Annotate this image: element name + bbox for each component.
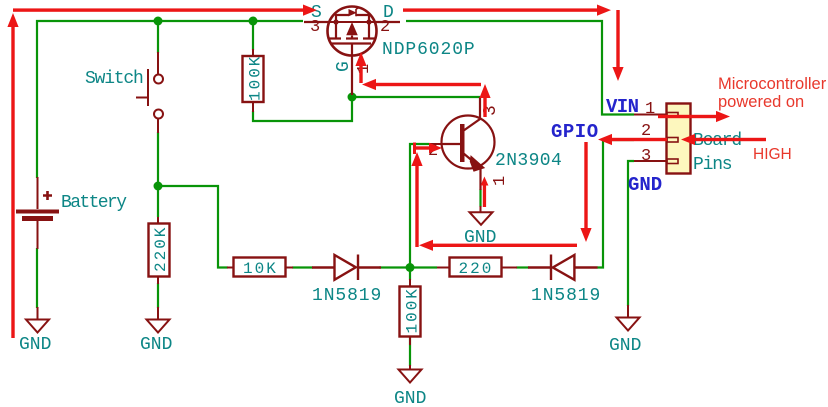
svg-text:GND: GND [609, 336, 641, 356]
wire transistor emitter to ground [479, 189, 481, 207]
resistor 10K [227, 258, 293, 279]
wire top rail from battery + to MOSFET source [37, 21, 303, 178]
svg-text:3: 3 [310, 18, 320, 37]
connector pin 1 lead [634, 114, 667, 116]
resistor 100K pull-up [243, 49, 265, 112]
current arrow top rail right [13, 5, 317, 16]
current arrow down into VIN [612, 10, 623, 81]
resistor 220 [437, 258, 517, 279]
current arrow up at collector [479, 84, 490, 117]
ground right below pin 3 [617, 305, 640, 331]
connector pin 3 lead [634, 160, 667, 162]
svg-text:GND: GND [628, 174, 662, 196]
wire node to 10K resistor [158, 186, 228, 268]
svg-text:1: 1 [491, 176, 510, 186]
wire diode D2 up to GPIO pin 2 [597, 140, 634, 268]
wire MOSFET drain to VIN pin [406, 21, 634, 115]
current arrow pin1 into microcontroller [658, 111, 730, 122]
current arrow right-to-left into gate [362, 79, 481, 90]
svg-text:GND: GND [140, 335, 172, 355]
current arrow up at gate [355, 52, 366, 83]
wire 220K top lead drop [157, 186, 159, 217]
wire base node up to transistor base [410, 144, 429, 268]
svg-text:NDP6020P: NDP6020P [382, 40, 476, 60]
wire 220 to diode D2 [516, 266, 529, 268]
svg-text:100K: 100K [404, 287, 422, 333]
junction gate node [348, 93, 357, 102]
ground below battery [26, 307, 49, 333]
junction node top-rail / switch [154, 17, 163, 26]
svg-text:1: 1 [645, 100, 655, 119]
current arrow HIGH into pin2 [681, 134, 766, 145]
wire 100K lower resistor to ground [409, 337, 411, 366]
svg-text:Switch: Switch [85, 69, 143, 89]
ground below 220K [147, 307, 170, 333]
svg-text:Pins: Pins [693, 155, 732, 175]
svg-text:GND: GND [19, 335, 51, 355]
wire base node to 220 resistor [410, 266, 437, 268]
diode D2 1N5819 [528, 255, 598, 281]
connector pin 2 lead [634, 139, 667, 141]
battery Battery [16, 177, 59, 249]
svg-text:VIN: VIN [606, 96, 639, 118]
current arrow into base with tail bar [413, 143, 442, 155]
svg-text:G: G [334, 61, 354, 72]
current arrow up at emitter [481, 177, 489, 208]
current arrow bottom leftwards [419, 240, 577, 251]
svg-text:1N5819: 1N5819 [531, 286, 601, 306]
resistor 220K [149, 217, 171, 284]
ground below 100K lower [399, 365, 422, 383]
connector J1 Board Pins body [667, 104, 691, 174]
svg-text:100K: 100K [247, 55, 265, 101]
svg-text:3: 3 [641, 147, 651, 166]
junction switch / 220K / 10K node [154, 182, 163, 191]
wire 220K bottom to ground [157, 283, 159, 308]
wire diode D1 to base node [379, 266, 410, 268]
wire 100K pull-up top drop [252, 21, 254, 50]
current arrow pin2 to GPIO [598, 134, 667, 145]
wire gate node to collector [352, 96, 480, 98]
current arrow drain to VIN corner [403, 5, 611, 16]
switch Switch [136, 52, 163, 133]
svg-text:Battery: Battery [61, 193, 127, 213]
svg-text:220K: 220K [152, 226, 170, 272]
current arrow GPIO down [580, 142, 591, 242]
current arrow left rail up [7, 13, 18, 338]
svg-text:HIGH: HIGH [753, 146, 792, 163]
svg-text:2N3904: 2N3904 [495, 151, 562, 171]
wire battery minus to ground [36, 248, 38, 308]
resistor 100K lower [400, 279, 422, 345]
wire 100K bottom to gate node [253, 96, 352, 121]
junction node top-rail / 100K [249, 17, 258, 26]
ground below emitter [470, 206, 493, 225]
diode D1 1N5819 [312, 255, 381, 281]
transistor Q1 2N3904 [429, 97, 495, 190]
wire GND pin 3 down to ground [628, 161, 634, 306]
current arrow up to base node [411, 152, 422, 247]
wire switch bottom to node [157, 132, 159, 187]
wire 10K to diode D1 [292, 266, 313, 268]
svg-text:2: 2 [380, 18, 390, 37]
wire switch top drop [157, 21, 159, 53]
svg-text:powered on: powered on [718, 93, 804, 111]
wire base node down stub [409, 268, 411, 281]
p-mosfet U1 NDP6020P [304, 7, 400, 96]
svg-text:1N5819: 1N5819 [312, 286, 382, 306]
svg-text:GPIO: GPIO [551, 121, 599, 143]
junction base node [406, 263, 415, 272]
svg-text:GND: GND [394, 389, 426, 407]
svg-text:Microcontroller: Microcontroller [718, 75, 827, 93]
svg-text:10K: 10K [243, 260, 278, 278]
svg-text:220: 220 [459, 260, 494, 278]
